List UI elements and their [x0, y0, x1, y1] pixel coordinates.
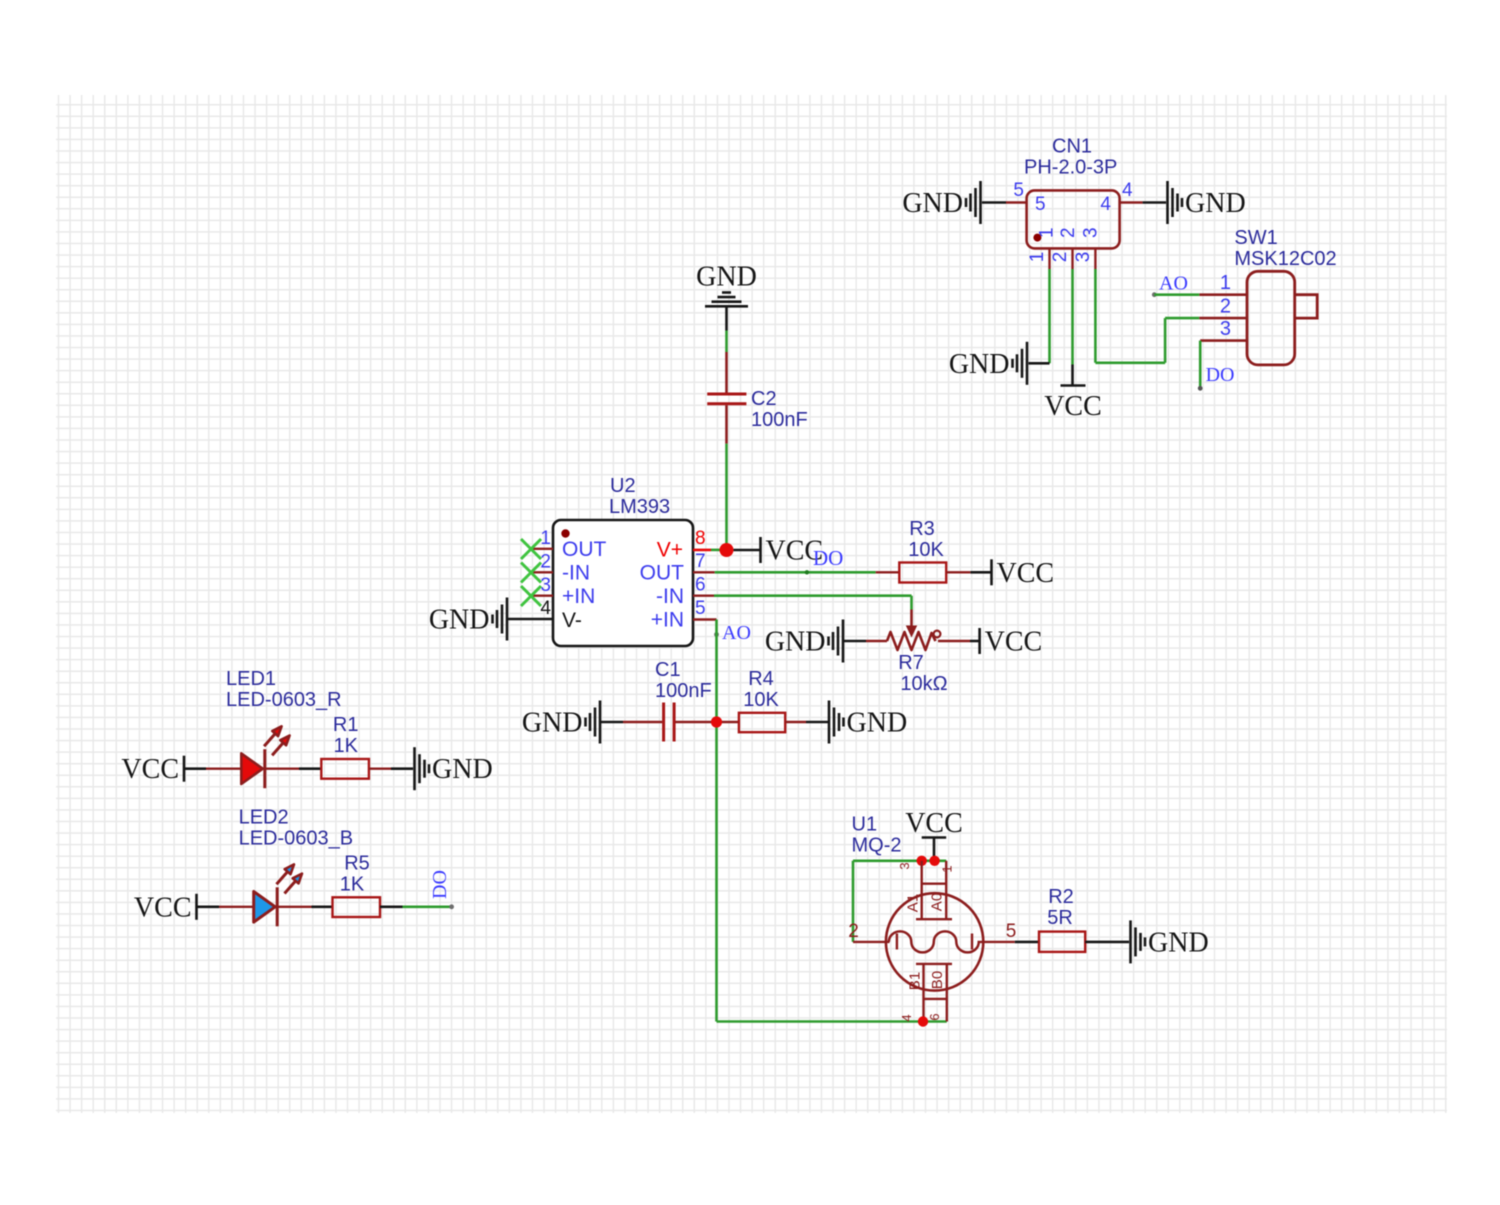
- node VCC junction (U2 pin 8 / C2): [720, 543, 734, 557]
- U2 pin 7 (OUT): [640, 551, 715, 585]
- svg-text:4: 4: [1100, 194, 1111, 215]
- svg-text:1: 1: [1027, 252, 1048, 263]
- svg-text:AO: AO: [722, 622, 751, 644]
- ground (R4 right): [829, 701, 907, 744]
- power flag VCC (LED1): [121, 754, 184, 785]
- svg-text:R5: R5: [344, 853, 370, 875]
- svg-text:10kΩ: 10kΩ: [900, 673, 947, 695]
- svg-text:5: 5: [695, 598, 706, 619]
- CN1 pin 3: [1073, 227, 1102, 269]
- svg-text:+IN: +IN: [562, 585, 595, 608]
- svg-text:1: 1: [1220, 272, 1231, 294]
- wire (R7 to VCC flag): [938, 640, 979, 642]
- wire DO net (R5 to open end): [380, 904, 454, 909]
- ground (U2 pin 4): [429, 598, 507, 641]
- svg-text:R3: R3: [909, 518, 935, 540]
- svg-text:R7: R7: [898, 652, 924, 674]
- svg-text:OUT: OUT: [562, 538, 607, 561]
- svg-text:CN1: CN1: [1052, 136, 1092, 158]
- svg-text:5: 5: [1013, 180, 1024, 201]
- wire (junction to VCC flag): [734, 549, 761, 552]
- svg-text:DO: DO: [1206, 364, 1235, 386]
- svg-text:GND: GND: [1185, 188, 1246, 219]
- U2 pin 4 (V-) wire to ground: [508, 598, 582, 632]
- MQ-2 pin 2 lead: [848, 921, 889, 942]
- no-connect X on pin 1: [521, 539, 541, 559]
- sensor U1 MQ-2 body: [886, 893, 983, 990]
- svg-text:LED1: LED1: [226, 668, 276, 690]
- ground (R7 left): [765, 620, 843, 663]
- svg-text:2: 2: [1058, 227, 1079, 238]
- wire DO net (SW1 pin 3 down): [1198, 341, 1235, 391]
- CN1 pin 5: [1006, 180, 1046, 215]
- svg-text:V+: V+: [657, 539, 683, 562]
- svg-text:U2: U2: [610, 475, 636, 497]
- resistor R1 1K: [321, 714, 369, 779]
- svg-text:DO: DO: [429, 870, 451, 899]
- svg-text:VCC: VCC: [1044, 391, 1102, 422]
- svg-text:100nF: 100nF: [655, 680, 712, 702]
- potentiometer R7 10kOhm: [887, 631, 948, 695]
- svg-text:2: 2: [1050, 252, 1071, 263]
- U2 pin 5 (+IN): [651, 598, 717, 632]
- power flag VCC (R3): [992, 558, 1055, 589]
- svg-text:VCC: VCC: [905, 808, 963, 839]
- sensor U1 MQ-2 labels: [852, 814, 902, 857]
- wire (GND to pin1 wire): [1029, 362, 1050, 365]
- U2 pin 8 (V+): [657, 528, 722, 562]
- wire (C1 to node): [675, 721, 711, 723]
- node junction dots (MQ-2 top): [917, 856, 940, 866]
- svg-text:2: 2: [848, 921, 859, 942]
- wire (R1 to GND): [369, 768, 413, 770]
- svg-text:5: 5: [1006, 921, 1017, 942]
- op-amp U2 LM393 body: [553, 475, 693, 646]
- svg-text:GND: GND: [847, 708, 908, 739]
- ground (top, above C2): [696, 261, 757, 306]
- svg-text:VCC: VCC: [997, 558, 1055, 589]
- svg-text:R1: R1: [333, 714, 359, 736]
- svg-text:6: 6: [927, 1013, 942, 1020]
- svg-text:SW1: SW1: [1234, 227, 1277, 249]
- wire (CN1 pin 1 to GND): [1048, 269, 1051, 363]
- MQ-2 top electrode (pins 3,1): [897, 861, 955, 919]
- svg-text:GND: GND: [902, 188, 963, 219]
- svg-text:GND: GND: [696, 261, 757, 292]
- svg-text:1K: 1K: [340, 874, 365, 896]
- svg-text:VCC: VCC: [134, 892, 192, 923]
- wire (node to R4): [722, 721, 739, 723]
- grid background: [56, 95, 1447, 1113]
- LED LED1 (red): [226, 668, 342, 788]
- svg-text:R4: R4: [748, 668, 774, 690]
- svg-text:100nF: 100nF: [751, 409, 808, 431]
- resistor R2 5R: [1039, 886, 1085, 952]
- svg-text:2: 2: [1220, 296, 1231, 318]
- svg-text:GND: GND: [522, 708, 583, 739]
- U2 pin 3 (+IN, no-connect): [531, 575, 595, 608]
- wire (GND to R7): [843, 640, 887, 643]
- R7 wiper arrow: [906, 610, 917, 638]
- svg-text:A0: A0: [929, 893, 946, 911]
- svg-text:V-: V-: [562, 609, 582, 632]
- connector CN1 PH-2.0-3P body: [1024, 136, 1120, 249]
- power flag VCC (R7): [980, 627, 1043, 658]
- wire (LED1 to R1): [266, 768, 321, 770]
- ground (CN1 pin 1): [949, 342, 1027, 385]
- MQ-2 bottom electrode (pins 4,6): [899, 964, 952, 1022]
- svg-text:LED-0603_B: LED-0603_B: [239, 828, 354, 850]
- svg-text:4: 4: [1122, 180, 1133, 201]
- MQ-2 heater (pins 2,5): [889, 931, 979, 952]
- svg-text:MQ-2: MQ-2: [852, 835, 902, 857]
- svg-text:-IN: -IN: [656, 585, 684, 608]
- svg-text:10K: 10K: [908, 539, 944, 561]
- wire (VCC to LED1): [184, 767, 241, 770]
- wire (R4 to GND): [785, 721, 828, 723]
- switch SW1 MSK12C02 body: [1234, 227, 1336, 365]
- svg-text:R2: R2: [1048, 886, 1074, 908]
- MQ-2 pin 5 lead: [978, 921, 1017, 942]
- svg-text:VCC: VCC: [985, 627, 1043, 658]
- svg-text:1: 1: [1036, 227, 1057, 238]
- resistor R4 10K: [739, 668, 785, 732]
- CN1 pin 4: [1100, 180, 1142, 215]
- svg-text:VCC: VCC: [121, 754, 179, 785]
- svg-text:3: 3: [1081, 227, 1102, 238]
- svg-text:GND: GND: [949, 349, 1010, 380]
- svg-text:1: 1: [540, 528, 551, 549]
- ground (C1 left): [522, 701, 600, 744]
- svg-text:LED2: LED2: [239, 807, 289, 829]
- wire (MQ-2 top net): [853, 861, 946, 942]
- LED LED2 (blue): [239, 807, 354, 927]
- net label AO (on U2 pin 5 wire): [714, 622, 751, 644]
- wire (VCC to LED2): [197, 905, 254, 908]
- power flag VCC (LED2): [134, 892, 197, 923]
- node junction dot (MQ-2 bottom): [918, 1016, 928, 1026]
- no-connect X on pin 2: [521, 563, 541, 583]
- ground (R2): [1131, 920, 1209, 963]
- SW1 pin 2: [1199, 296, 1247, 319]
- svg-text:6: 6: [695, 575, 706, 596]
- U2 pin 6 (-IN): [656, 575, 714, 609]
- svg-text:MSK12C02: MSK12C02: [1234, 248, 1336, 270]
- svg-text:DO: DO: [813, 546, 843, 570]
- no-connect X on pin 3: [521, 586, 541, 606]
- svg-text:+IN: +IN: [651, 609, 684, 632]
- svg-text:AO: AO: [1159, 273, 1188, 295]
- resistor R5 1K: [333, 853, 381, 918]
- wire (pin 6 to R7 wiper): [714, 596, 912, 610]
- wire (pin 5 to R2): [1015, 941, 1039, 944]
- capacitor C1 100nF: [655, 659, 712, 742]
- U2 pin 1 (OUT, no-connect): [531, 528, 607, 561]
- svg-text:C1: C1: [655, 659, 681, 681]
- svg-text:GND: GND: [429, 605, 490, 636]
- wire AO net (pin 5 down to MQ-2 bottom): [717, 620, 947, 1022]
- wire (CN1 pin 3 to SW1 pin 2): [1095, 269, 1199, 363]
- power flag VCC (U2 pin 8): [761, 536, 824, 567]
- svg-text:8: 8: [695, 528, 706, 549]
- power flag VCC (CN1 pin 2, pointing down): [1044, 386, 1102, 423]
- svg-text:2: 2: [540, 552, 551, 573]
- ground (LED1 row): [415, 747, 493, 790]
- resistor R3 10K: [899, 518, 946, 583]
- power flag VCC (MQ-2 top): [905, 808, 963, 859]
- wire (GND to C1): [600, 721, 662, 724]
- net label AO with wire (SW1 pin 1): [1152, 273, 1199, 298]
- svg-text:3: 3: [1073, 252, 1094, 263]
- svg-text:5: 5: [1035, 194, 1046, 215]
- SW1 pin 1: [1199, 272, 1247, 295]
- CN1 pin 2: [1050, 227, 1079, 269]
- wire (CN1 pin 2 to VCC): [1071, 269, 1074, 385]
- svg-text:1K: 1K: [333, 735, 358, 757]
- svg-text:-IN: -IN: [562, 562, 590, 585]
- SW1 pin 3: [1200, 318, 1247, 341]
- svg-text:4: 4: [540, 598, 551, 619]
- svg-text:GND: GND: [765, 627, 826, 658]
- svg-text:GND: GND: [432, 754, 493, 785]
- svg-text:4: 4: [899, 1014, 914, 1021]
- CN1 pin 1: [1027, 227, 1057, 269]
- U2 pin 2 (-IN, no-connect): [531, 552, 590, 585]
- svg-text:7: 7: [695, 551, 706, 572]
- wire (C2 bottom to VCC junction at U2 pin 8): [725, 405, 728, 550]
- node AO junction (C1/R4/wire): [711, 716, 722, 727]
- svg-text:A1: A1: [905, 894, 922, 912]
- wire (CN1 pin 4 to GND): [1143, 201, 1166, 204]
- ground (CN1 pin 4): [1168, 181, 1246, 224]
- svg-text:B0: B0: [929, 971, 946, 989]
- svg-text:OUT: OUT: [640, 562, 685, 585]
- svg-text:3: 3: [540, 575, 551, 596]
- svg-text:U1: U1: [852, 814, 878, 836]
- wire (CN1 pin 5 to GND): [982, 201, 1006, 204]
- wire DO net (pin 7 to R3): [715, 570, 900, 574]
- svg-text:5R: 5R: [1047, 907, 1073, 929]
- wire (LED2 to R5): [279, 906, 333, 908]
- svg-text:C2: C2: [751, 388, 777, 410]
- capacitor C2: [707, 388, 808, 431]
- svg-text:10K: 10K: [743, 689, 779, 711]
- wire (GND to C2 top): [725, 308, 728, 393]
- svg-text:B1: B1: [907, 972, 924, 990]
- svg-text:1: 1: [940, 865, 955, 872]
- svg-text:LM393: LM393: [609, 496, 670, 518]
- ground (CN1 pin 5): [902, 181, 980, 224]
- wire (R2 to GND): [1085, 941, 1129, 944]
- wire (R3 to VCC flag): [946, 571, 991, 573]
- svg-text:3: 3: [897, 862, 912, 869]
- svg-text:PH-2.0-3P: PH-2.0-3P: [1024, 157, 1117, 179]
- svg-text:LED-0603_R: LED-0603_R: [226, 689, 342, 711]
- svg-text:GND: GND: [1148, 927, 1209, 958]
- svg-text:3: 3: [1220, 318, 1231, 340]
